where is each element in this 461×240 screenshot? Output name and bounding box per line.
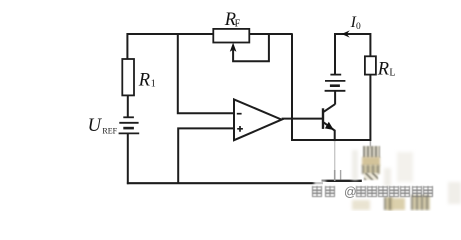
wire battery V+ to collector — [334, 91, 336, 105]
svg-text:1: 1 — [151, 79, 156, 90]
wire RL corner ghost tail — [369, 141, 371, 149]
svg-text:0: 0 — [356, 22, 361, 32]
battery U_REF — [119, 117, 140, 133]
wire inverting input (node A to op-amp minus) — [178, 33, 234, 113]
wire RF right terminal — [249, 33, 292, 35]
transistor Q1 — [323, 104, 335, 130]
wire I0 loop (battery V+ to RL top) — [335, 34, 370, 75]
wire noninverting input to ground rail — [178, 128, 234, 183]
wire emitter to rail (bleached faint by watermark) — [334, 141, 336, 170]
svg-text:R: R — [138, 70, 150, 90]
battery V+ — [325, 75, 346, 91]
wire U_REF to ground rail — [127, 133, 129, 184]
wire op-amp output to base — [282, 118, 323, 120]
svg-text:F: F — [235, 19, 241, 30]
svg-text:R: R — [377, 59, 389, 79]
watermark text 知乎 @北京德国得电子 (simulated CJK glyphs) — [311, 186, 313, 198]
op-amp U1 — [234, 99, 282, 140]
watermark ghost streak — [340, 170, 342, 180]
svg-text:REF: REF — [102, 127, 117, 136]
svg-text:U: U — [88, 116, 103, 136]
resistor RL — [365, 56, 376, 74]
watermark remnant blobs (blurred) — [314, 180, 326, 187]
svg-text:L: L — [389, 67, 395, 78]
ground rail right segment (partly bleached by watermark) — [322, 180, 362, 182]
wire emitter down — [334, 130, 336, 141]
wire R1 to U_REF — [127, 95, 129, 118]
potentiometer RF — [213, 29, 269, 61]
wire emitter lower faint tail — [334, 170, 336, 181]
resistor R1 — [122, 59, 134, 95]
wire top rail node A — [127, 34, 213, 60]
wire feedback loop (RF to RL bottom) — [292, 33, 370, 140]
arrow I0 (current direction) — [342, 30, 350, 37]
ground rail (bottom wire) — [127, 182, 323, 184]
